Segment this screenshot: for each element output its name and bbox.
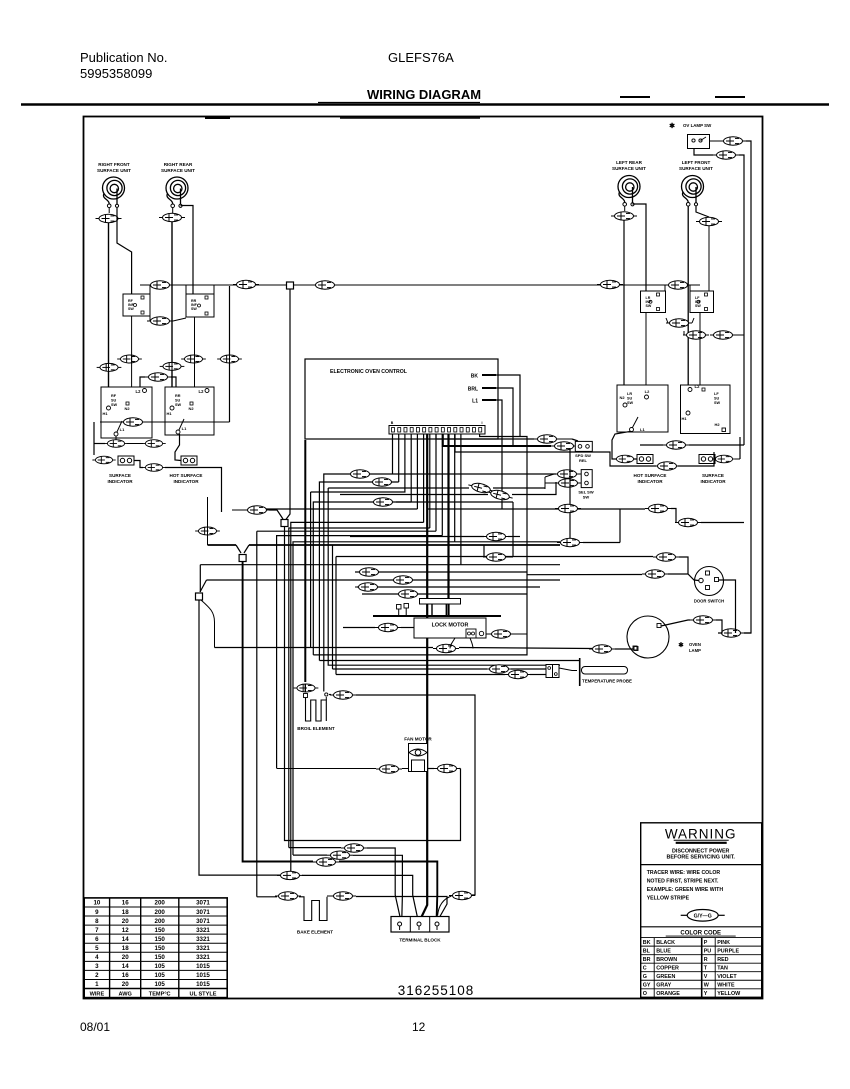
wire bus junction drop bbox=[286, 289, 291, 520]
svg-text:INDICATOR: INDICATOR bbox=[700, 479, 726, 484]
wire fan right loop bbox=[428, 768, 461, 770]
svg-text:105: 105 bbox=[155, 963, 166, 970]
svg-text:PU: PU bbox=[704, 948, 712, 954]
connector bake left bbox=[275, 892, 301, 900]
svg-text:BROWN: BROWN bbox=[656, 957, 677, 963]
wire right y508 bbox=[502, 508, 645, 510]
svg-text:Y: Y bbox=[704, 991, 708, 997]
wire main bus L1 bbox=[140, 284, 700, 286]
svg-text:200: 200 bbox=[155, 918, 166, 925]
connector probe a bbox=[486, 665, 512, 673]
eoc terminal strip bbox=[389, 421, 485, 434]
wire run y535 bbox=[277, 536, 443, 769]
svg-text:150: 150 bbox=[155, 927, 166, 934]
switch spd bbox=[560, 439, 592, 451]
wire run y528 bbox=[289, 528, 430, 848]
svg-text:P: P bbox=[704, 940, 708, 946]
connector ind right a bbox=[612, 455, 637, 463]
svg-text:TEMPERATURE PROBE: TEMPERATURE PROBE bbox=[582, 679, 632, 684]
svg-text:BR: BR bbox=[643, 957, 651, 963]
left front surface unit coil bbox=[679, 160, 713, 206]
oven lamp bbox=[627, 616, 669, 658]
svg-text:3071: 3071 bbox=[196, 900, 210, 907]
svg-text:LOCK MOTOR: LOCK MOTOR bbox=[432, 623, 469, 629]
svg-text:I: I bbox=[482, 421, 483, 425]
svg-text:SW: SW bbox=[714, 401, 721, 405]
connector below lr inf bbox=[666, 318, 694, 327]
connector y572 bbox=[356, 568, 382, 576]
wire y522 link bbox=[0, 0, 1, 1]
wire run y509 bbox=[266, 508, 417, 510]
wire probe line b bbox=[336, 674, 505, 676]
svg-text:L2: L2 bbox=[695, 384, 701, 389]
connector y587 bbox=[355, 583, 381, 591]
connector lamp right bbox=[718, 629, 751, 637]
svg-text:BL: BL bbox=[643, 948, 651, 954]
svg-text:VIOLET: VIOLET bbox=[717, 974, 737, 980]
svg-text:TAN: TAN bbox=[717, 966, 728, 972]
svg-text:SW: SW bbox=[128, 307, 134, 311]
svg-text:GREEN: GREEN bbox=[656, 974, 675, 980]
wire bake feed bbox=[257, 531, 277, 897]
svg-text:OVEN: OVEN bbox=[689, 642, 701, 647]
connector rr surface unit bbox=[159, 213, 185, 221]
svg-text:O: O bbox=[643, 991, 647, 997]
page header publication number bbox=[80, 50, 167, 81]
svg-text:REL: REL bbox=[579, 458, 588, 463]
connector x205 vertical bbox=[195, 497, 220, 545]
wire pin drop 11 bbox=[460, 434, 462, 565]
svg-text:NOTED FIRST, STRIPE NEXT.: NOTED FIRST, STRIPE NEXT. bbox=[647, 878, 719, 884]
svg-text:N2: N2 bbox=[188, 406, 194, 411]
svg-text:200: 200 bbox=[155, 900, 166, 907]
warning and color code box bbox=[641, 823, 762, 998]
svg-text:V: V bbox=[704, 974, 708, 980]
svg-text:7: 7 bbox=[95, 927, 99, 934]
wire lock lower leads bbox=[450, 638, 473, 649]
connector below rf inf bbox=[147, 316, 186, 325]
wire pin drop 10 bbox=[454, 434, 456, 542]
svg-text:BK: BK bbox=[471, 374, 479, 380]
probe connector block bbox=[546, 665, 559, 678]
connector fan right bbox=[434, 764, 460, 772]
wire lr lead to su switch bbox=[623, 221, 625, 405]
svg-text:BEFORE SERVICING UNIT.: BEFORE SERVICING UNIT. bbox=[666, 854, 735, 860]
svg-text:20: 20 bbox=[122, 918, 129, 925]
wire rf lead to su switch bbox=[108, 223, 110, 404]
wire pin drop heavy lock bbox=[447, 434, 449, 615]
svg-text:L2: L2 bbox=[199, 389, 205, 394]
node junction v bbox=[239, 555, 246, 562]
wire l1 row left bbox=[94, 422, 105, 455]
wire right loop a bbox=[619, 509, 621, 543]
svg-text:TRACER WIRE: WIRE COLOR: TRACER WIRE: WIRE COLOR bbox=[647, 870, 721, 876]
svg-text:TERMINAL BLOCK: TERMINAL BLOCK bbox=[399, 938, 441, 943]
connector su below a bbox=[104, 440, 127, 448]
svg-text:COLOR CODE: COLOR CODE bbox=[680, 930, 721, 936]
svg-text:SW: SW bbox=[583, 495, 590, 500]
connector su rf internal bbox=[100, 418, 230, 426]
connector y502 bbox=[370, 498, 396, 506]
svg-text:3321: 3321 bbox=[196, 945, 210, 952]
svg-text:18: 18 bbox=[122, 909, 129, 916]
wire y848 run bbox=[289, 848, 401, 919]
wire eoc brl bbox=[496, 388, 513, 445]
node junction mid bbox=[281, 520, 288, 527]
wire jack feed a bbox=[556, 557, 688, 575]
label hot surface indicator bbox=[170, 473, 203, 484]
svg-text:SU: SU bbox=[627, 397, 633, 401]
svg-text:YELLOW: YELLOW bbox=[717, 991, 741, 997]
svg-text:150: 150 bbox=[155, 945, 166, 952]
connector su below b bbox=[127, 440, 166, 448]
svg-text:150: 150 bbox=[155, 936, 166, 943]
electronic oven control box bbox=[305, 359, 498, 439]
label broil element bbox=[297, 726, 335, 731]
wire pin drop 13 bbox=[436, 434, 534, 439]
title WIRING DIAGRAM bbox=[21, 87, 829, 105]
svg-text:EXAMPLE: GREEN WIRE WITH: EXAMPLE: GREEN WIRE WITH bbox=[647, 887, 724, 893]
wire indicator row bbox=[134, 461, 222, 510]
svg-text:1015: 1015 bbox=[196, 981, 210, 988]
node junction left bbox=[196, 593, 203, 600]
svg-text:ORANGE: ORANGE bbox=[656, 991, 680, 997]
wire bake right out bbox=[356, 897, 447, 920]
svg-text:BRL: BRL bbox=[468, 387, 478, 393]
svg-text:ELECTRONIC OVEN CONTROL: ELECTRONIC OVEN CONTROL bbox=[330, 369, 408, 375]
svg-text:3071: 3071 bbox=[196, 918, 210, 925]
svg-text:10: 10 bbox=[93, 900, 100, 907]
svg-text:RIGHT FRONT: RIGHT FRONT bbox=[98, 162, 130, 167]
connector lock motor right bbox=[486, 630, 527, 638]
connector y855 bbox=[327, 851, 353, 859]
svg-text:UL STYLE: UL STYLE bbox=[190, 992, 217, 998]
svg-text:FAN MOTOR: FAN MOTOR bbox=[404, 737, 432, 742]
svg-text:5: 5 bbox=[95, 945, 99, 952]
connector oven lamp switch out bbox=[720, 137, 746, 145]
wire run y572 bbox=[355, 571, 527, 573]
wire y536 run bbox=[350, 536, 520, 538]
connector y580 bbox=[390, 576, 416, 584]
svg-text:SURFACE UNIT: SURFACE UNIT bbox=[679, 166, 713, 171]
page header model number bbox=[388, 50, 454, 65]
bake element bbox=[299, 897, 327, 921]
svg-text:H1: H1 bbox=[102, 411, 108, 416]
label surface indicator bbox=[107, 473, 133, 484]
svg-text:DOOR SWITCH: DOOR SWITCH bbox=[694, 599, 724, 604]
svg-text:RR: RR bbox=[175, 394, 181, 398]
wire routing rect a bbox=[319, 488, 580, 665]
switch LR infinite bbox=[641, 291, 666, 313]
wire probe a2 bbox=[511, 668, 546, 670]
wire pin drop 3 bbox=[311, 434, 405, 492]
wire pin drop 8 bbox=[435, 434, 437, 531]
wire run y565 bbox=[200, 565, 560, 592]
wire jack right out bbox=[719, 580, 736, 633]
eoc pin BK bbox=[471, 374, 496, 380]
connector lf surface unit bbox=[696, 217, 722, 225]
svg-text:C: C bbox=[643, 966, 647, 972]
connector bus left bbox=[233, 280, 259, 288]
wire y495 run bbox=[340, 482, 556, 495]
svg-text:4: 4 bbox=[95, 954, 99, 961]
svg-text:N2: N2 bbox=[124, 406, 130, 411]
wire run y594 bbox=[362, 593, 527, 595]
wire lamp sw lower lead bbox=[694, 149, 713, 156]
svg-text:14: 14 bbox=[122, 936, 129, 943]
label hot surface indicator right bbox=[634, 473, 667, 484]
svg-text:INDICATOR: INDICATOR bbox=[107, 479, 133, 484]
broil element bbox=[304, 693, 328, 721]
svg-text:SW: SW bbox=[695, 304, 701, 308]
switch LF surface unit bbox=[681, 384, 731, 434]
connector jack feed b bbox=[642, 570, 668, 578]
svg-text:BLUE: BLUE bbox=[656, 948, 671, 954]
svg-text:150: 150 bbox=[155, 954, 166, 961]
node bus junction bbox=[287, 282, 294, 289]
wire run y580 bbox=[200, 580, 560, 592]
wire inf box2 down bbox=[194, 317, 196, 387]
label oven lamp bbox=[678, 641, 701, 653]
svg-text:COPPER: COPPER bbox=[656, 966, 679, 972]
svg-text:SW: SW bbox=[646, 304, 652, 308]
label door switch bbox=[694, 599, 724, 604]
svg-text:L1: L1 bbox=[472, 399, 478, 405]
wire y489 run bbox=[328, 487, 545, 489]
svg-text:LF: LF bbox=[714, 392, 719, 396]
svg-text:WARNING: WARNING bbox=[665, 826, 737, 841]
wire heavy y861 bbox=[250, 862, 437, 920]
connector bus rf-rr bbox=[147, 281, 173, 289]
connector y474 bbox=[324, 470, 373, 692]
connector spd b bbox=[551, 442, 577, 450]
connector y522 right bbox=[675, 518, 744, 526]
connector rr right lead mid bbox=[181, 355, 206, 364]
connector bus mid bbox=[312, 281, 338, 289]
wire y648 to lamp bbox=[615, 646, 637, 650]
svg-text:SU: SU bbox=[714, 397, 720, 401]
svg-text:20: 20 bbox=[122, 981, 129, 988]
wire lock loop bbox=[313, 634, 527, 655]
wire inf box1 down bbox=[131, 316, 133, 387]
wire y557b run bbox=[483, 545, 485, 557]
svg-text:YELLOW STRIPE: YELLOW STRIPE bbox=[647, 895, 690, 901]
svg-text:L2: L2 bbox=[136, 389, 142, 394]
svg-text:HOT SURFACE: HOT SURFACE bbox=[170, 473, 203, 478]
wire run y502 bbox=[313, 502, 513, 655]
svg-text:LAMP: LAMP bbox=[689, 648, 701, 653]
label surface indicator right bbox=[700, 473, 726, 484]
left rear surface unit coil bbox=[612, 160, 646, 206]
svg-text:L1: L1 bbox=[182, 426, 187, 431]
svg-text:3321: 3321 bbox=[196, 954, 210, 961]
svg-text:WIRING DIAGRAM: WIRING DIAGRAM bbox=[367, 87, 481, 102]
svg-text:2: 2 bbox=[95, 972, 99, 979]
wire rr coil left lead bbox=[172, 208, 174, 213]
wire pin drop heavy terminal bbox=[421, 434, 428, 919]
lamp surface indicator right bbox=[699, 455, 715, 464]
wire inf lf down bbox=[699, 313, 701, 386]
connector y489 bbox=[467, 481, 494, 495]
label terminal block bbox=[399, 938, 441, 943]
svg-text:SU: SU bbox=[111, 399, 117, 403]
svg-text:20: 20 bbox=[122, 954, 129, 961]
connector y861 bbox=[313, 858, 339, 866]
wire run y545 heavy bbox=[208, 545, 561, 553]
connector jack feed a bbox=[653, 553, 679, 561]
svg-text:LR: LR bbox=[627, 392, 632, 396]
connector between su boxes bbox=[140, 373, 176, 387]
svg-text:3321: 3321 bbox=[196, 927, 210, 934]
svg-text:RF: RF bbox=[111, 394, 117, 398]
connector ind right b bbox=[712, 437, 740, 463]
connector lf inf b bbox=[710, 331, 744, 339]
footer date bbox=[80, 1020, 110, 1034]
wire from junction left bbox=[199, 600, 280, 875]
wire run y522 bbox=[291, 522, 424, 875]
connector probe b bbox=[505, 670, 531, 678]
wire lamp sw to right bus bbox=[744, 141, 751, 633]
svg-text:SURFACE: SURFACE bbox=[109, 473, 131, 478]
wire lf coil left lead bbox=[687, 206, 689, 404]
svg-text:105: 105 bbox=[155, 981, 166, 988]
svg-text:9: 9 bbox=[95, 909, 99, 916]
connector lock motor lower bbox=[433, 644, 459, 652]
wire broil feed heavy bbox=[304, 440, 306, 682]
svg-text:✱: ✱ bbox=[669, 122, 675, 130]
connector y482 bbox=[369, 478, 395, 486]
connector broil bbox=[294, 684, 319, 693]
svg-text:08/01: 08/01 bbox=[80, 1020, 110, 1034]
wire bus stub box1 bbox=[149, 285, 151, 294]
connector y876 bbox=[277, 871, 303, 879]
wire vert x229 bbox=[217, 286, 242, 422]
svg-text:G: G bbox=[643, 974, 647, 980]
svg-text:LEFT REAR: LEFT REAR bbox=[616, 160, 642, 165]
lock motor bracket bbox=[420, 599, 461, 616]
svg-text:H2: H2 bbox=[714, 422, 720, 427]
switch RF infinite bbox=[123, 294, 150, 316]
svg-text:5995358099: 5995358099 bbox=[80, 66, 152, 81]
wire gauge table bbox=[84, 898, 227, 998]
wire run y541 bbox=[293, 542, 455, 855]
lock motor top terminals bbox=[397, 604, 409, 616]
svg-text:16: 16 bbox=[122, 900, 129, 907]
wire pin drop 6 bbox=[423, 434, 425, 522]
wire pin drop 15 bbox=[455, 434, 656, 466]
footer page number bbox=[412, 1020, 426, 1034]
svg-text:AWG: AWG bbox=[119, 992, 132, 998]
wire y648 run bbox=[215, 492, 593, 649]
connector fan left bbox=[376, 765, 402, 773]
wire pin drop 9 bbox=[441, 434, 443, 536]
wire pin drop 1 bbox=[392, 434, 394, 474]
svg-text:SW: SW bbox=[175, 403, 182, 407]
connector surface ind feed bbox=[92, 456, 115, 464]
fan motor bbox=[404, 737, 432, 772]
wire run y531 bbox=[257, 530, 436, 532]
switch sel bbox=[579, 470, 592, 488]
connector sel b bbox=[545, 479, 581, 487]
wire run y482 bbox=[319, 482, 398, 661]
connector bake right bbox=[327, 892, 356, 900]
svg-text:1: 1 bbox=[95, 981, 99, 988]
wire run y509 right bbox=[428, 508, 502, 510]
wire run y545 vert bbox=[332, 545, 334, 669]
svg-text:BROIL ELEMENT: BROIL ELEMENT bbox=[297, 726, 335, 731]
svg-text:LEFT FRONT: LEFT FRONT bbox=[682, 160, 711, 165]
door switch jack bbox=[695, 567, 724, 596]
connector rf surface unit bbox=[96, 214, 122, 222]
svg-text:12: 12 bbox=[412, 1020, 426, 1034]
svg-text:8: 8 bbox=[95, 918, 99, 925]
switch LR surface unit bbox=[617, 385, 668, 432]
switch RR surface unit bbox=[165, 387, 214, 435]
wire run y541 right bbox=[455, 541, 560, 543]
svg-text:✱: ✱ bbox=[678, 641, 684, 649]
svg-text:BAKE ELEMENT: BAKE ELEMENT bbox=[297, 930, 333, 935]
wire probe line a bbox=[333, 668, 488, 670]
wire probe b2 bbox=[530, 674, 546, 676]
svg-text:SW: SW bbox=[111, 403, 118, 407]
connector lr surface unit bbox=[611, 212, 637, 220]
svg-text:L1: L1 bbox=[120, 427, 125, 432]
svg-text:16: 16 bbox=[122, 972, 129, 979]
wire su rf l1 drop bbox=[115, 436, 117, 443]
connector y445 right bbox=[640, 441, 744, 449]
connector oven lamp switch lower bbox=[713, 151, 739, 159]
svg-text:H1: H1 bbox=[166, 411, 172, 416]
connector y536 bbox=[483, 532, 509, 540]
svg-text:PURPLE: PURPLE bbox=[717, 948, 739, 954]
wire broil right loop bbox=[329, 695, 475, 896]
connector y594 bbox=[395, 590, 421, 598]
wire lf lead to inf switch bbox=[708, 226, 710, 291]
svg-text:1015: 1015 bbox=[196, 963, 210, 970]
svg-text:INDICATOR: INDICATOR bbox=[173, 479, 199, 484]
connector bus lr-lf bbox=[665, 281, 691, 289]
lock motor body bbox=[414, 618, 486, 638]
wire lamp lower to right bbox=[739, 155, 744, 445]
wire bus stub box2b bbox=[213, 285, 215, 294]
wire pin drop 5 bbox=[416, 434, 418, 509]
label temperature probe bbox=[582, 679, 632, 684]
lamp hot surface indicator bbox=[175, 434, 197, 465]
wire pin drop 4 bbox=[410, 434, 412, 502]
eoc pin L1 bbox=[472, 399, 496, 405]
svg-text:INDICATOR: INDICATOR bbox=[637, 479, 663, 484]
connector spd a bbox=[534, 435, 560, 443]
svg-text:GRAY: GRAY bbox=[656, 983, 671, 989]
connector x221 run bbox=[232, 506, 283, 519]
connector lock left bbox=[343, 623, 414, 631]
wire bus stub box2a bbox=[185, 285, 187, 294]
label bake element bbox=[297, 930, 333, 935]
svg-text:WHITE: WHITE bbox=[717, 983, 735, 989]
wire eoc l1 bbox=[496, 400, 502, 509]
switch RF surface unit bbox=[101, 387, 152, 438]
svg-text:3071: 3071 bbox=[196, 909, 210, 916]
svg-text:RIGHT REAR: RIGHT REAR bbox=[164, 162, 193, 167]
wire rf coil right lead bbox=[117, 208, 132, 294]
svg-text:L2: L2 bbox=[645, 389, 650, 394]
wire pin drop 14 bbox=[480, 434, 527, 634]
terminal block bbox=[391, 917, 449, 933]
right rear surface unit coil bbox=[161, 162, 195, 208]
connector rf right lead mid bbox=[117, 355, 142, 364]
wire lf coil right lead bbox=[696, 206, 709, 217]
connector bus right bbox=[597, 280, 623, 288]
